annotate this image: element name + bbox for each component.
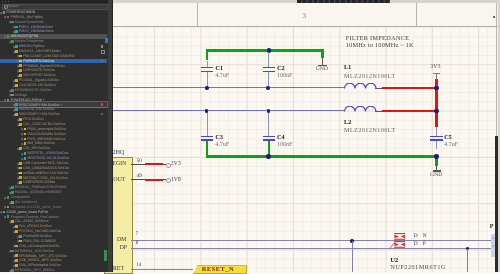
value MLZ2012N100LT of L1 xyxy=(344,73,396,80)
ruler zone number 3 xyxy=(303,12,307,20)
noERC circle GIN xyxy=(166,163,171,168)
junction C1-row1 xyxy=(205,86,209,90)
junction C4-row2 xyxy=(267,109,270,112)
red mark right margin xyxy=(493,16,496,19)
wire net DP horizontal xyxy=(131,248,495,249)
pin number 49 xyxy=(137,173,142,179)
net label RESET_N highlighted xyxy=(193,265,247,274)
text P right edge xyxy=(490,224,494,230)
junction DP vertical xyxy=(466,247,470,251)
wire DM branch vertical xyxy=(352,241,353,272)
text FILTER IMPEDANCE xyxy=(346,35,409,42)
junction bus1-C2 xyxy=(267,48,271,52)
scrollbar green marker xyxy=(104,250,107,261)
inductor L1 humps xyxy=(344,83,377,89)
sheet top margin ruler strip xyxy=(110,0,500,27)
junction row2-rail xyxy=(434,109,438,113)
schematic sheet background with grid xyxy=(113,26,500,273)
scrollbar blue marker xyxy=(105,38,108,43)
capacitor C5 xyxy=(436,127,437,136)
pin OUT wire xyxy=(131,179,145,180)
right panel light column xyxy=(498,0,500,272)
value 100nF of C2 xyxy=(277,73,292,79)
diff pair directive D_N xyxy=(393,233,407,240)
value MLZ2012N100LT of L2 xyxy=(344,127,396,134)
wire red row1 xyxy=(382,87,438,90)
power port 3V3 xyxy=(430,64,440,70)
capacitor C3 xyxy=(207,111,208,136)
junction C3-row2 xyxy=(205,109,208,112)
power label 3V3 xyxy=(171,161,181,167)
pin number 50 xyxy=(137,158,142,164)
label C5 xyxy=(444,134,452,141)
label C4 xyxy=(277,134,285,141)
inductor L2 humps xyxy=(344,106,377,112)
green bus1 horizontal xyxy=(206,49,324,52)
wire net row2 horizontal xyxy=(113,110,344,111)
wire DP branch vertical xyxy=(467,249,468,272)
left sidebar panel xyxy=(0,0,108,272)
value NUP2201MR6T1G of U2 xyxy=(390,264,446,271)
capacitor C2 xyxy=(268,52,269,67)
sheet entry DM xyxy=(104,237,126,243)
right sheet edge line xyxy=(496,3,497,136)
wire red GIN xyxy=(145,163,162,165)
ground GND1 xyxy=(322,58,323,65)
noERC circle OUT xyxy=(166,178,171,183)
lead to noERC circle xyxy=(163,164,166,165)
sidebar search box xyxy=(2,4,108,11)
lead to noERC circle 2 xyxy=(163,179,166,180)
sheet entry DP xyxy=(104,245,127,251)
sheet symbol block (yellow) xyxy=(104,157,133,274)
junction DM vertical xyxy=(350,239,354,243)
text 2HQ above block xyxy=(104,150,124,156)
sidebar titlebar xyxy=(0,0,108,3)
junction bus2-C4 xyxy=(266,154,271,159)
top window edge line xyxy=(110,0,500,3)
wire RESET pin xyxy=(131,269,193,270)
sidebar project tree rows xyxy=(0,11,3,14)
capacitor C1 xyxy=(207,61,208,68)
wire net DM horizontal xyxy=(131,240,495,241)
sheet entry RET xyxy=(104,266,124,272)
green stub to GND2 xyxy=(435,157,438,166)
sidebar scrollbar strip xyxy=(108,0,113,272)
value 100nF of C4 xyxy=(277,142,292,148)
pin number 14 xyxy=(136,263,141,268)
sheet entry ROUT xyxy=(104,177,125,183)
green bus2 horizontal xyxy=(206,155,438,158)
wire net row1 horizontal xyxy=(113,87,344,88)
value 4.7uF of C5 xyxy=(444,142,458,148)
junction row1-rail xyxy=(434,86,438,90)
green C3 bottom vertical xyxy=(206,141,209,158)
pin number 7 xyxy=(136,232,139,237)
wire red OUT xyxy=(145,179,162,181)
dark dashed tab bar top xyxy=(297,0,390,3)
ruler zone tick left xyxy=(197,3,198,26)
label L2 xyxy=(344,119,351,126)
pin GIN wire xyxy=(131,164,145,165)
right edge port strip xyxy=(491,234,497,258)
text 10MHz to 100MHz ~ 1K xyxy=(346,42,414,49)
diff pair directive D_P xyxy=(393,241,407,248)
ruler zone tick right xyxy=(416,3,417,26)
value 4.7uF of C3 xyxy=(215,142,229,148)
label L1 xyxy=(344,64,351,71)
pin number 8 xyxy=(136,241,139,246)
junction bus2-rail xyxy=(434,154,439,159)
wire red row2 xyxy=(382,110,438,113)
net label D P xyxy=(414,241,418,247)
wire red vertical 3V3 rail xyxy=(435,79,438,127)
net label D N xyxy=(414,233,418,239)
label C2 xyxy=(277,65,285,72)
sheet entry REGIN xyxy=(104,161,126,167)
green bus1 left vertical xyxy=(206,49,209,60)
capacitor C4 xyxy=(268,111,269,136)
ground GND2 xyxy=(436,166,437,171)
power label 1V8 xyxy=(171,177,181,183)
label C1 xyxy=(215,65,223,72)
right panel dark bar xyxy=(495,136,498,272)
junction C2-row1 xyxy=(266,86,270,90)
label C3 xyxy=(215,134,223,141)
label U2 xyxy=(390,257,398,264)
diff pair directive leader xyxy=(389,239,398,249)
value 4.7uF of C1 xyxy=(215,73,229,79)
green bus1 right vertical xyxy=(321,49,324,58)
green C4 bottom vertical xyxy=(268,141,271,157)
